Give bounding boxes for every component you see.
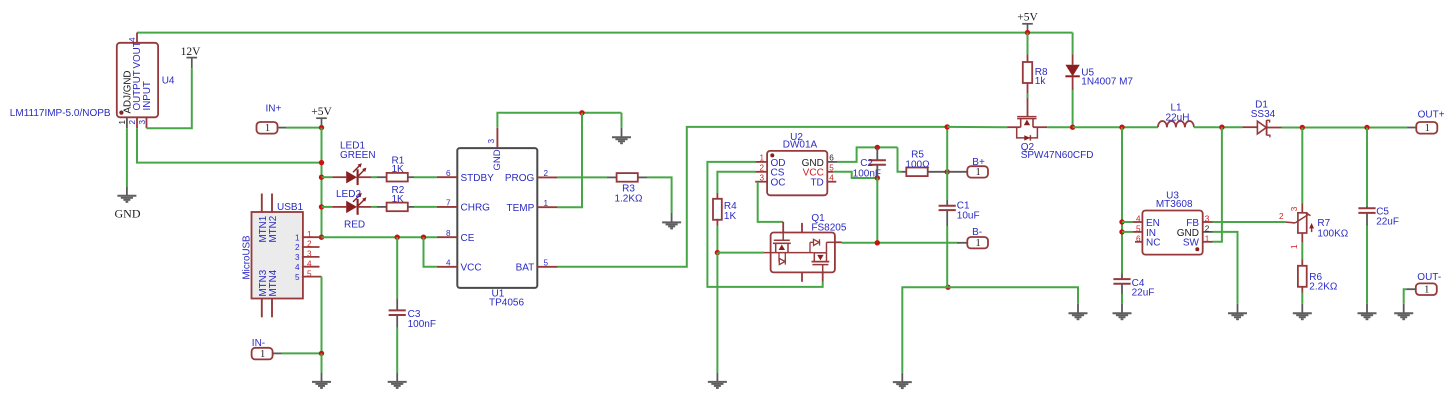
U2 pin 2 stub xyxy=(755,171,767,173)
svg-text:VCC: VCC xyxy=(461,262,482,273)
svg-text:1K: 1K xyxy=(392,164,405,175)
svg-text:B-: B- xyxy=(972,227,982,238)
svg-text:SS34: SS34 xyxy=(1251,109,1276,120)
svg-text:1: 1 xyxy=(265,123,270,134)
svg-text:4: 4 xyxy=(307,259,312,268)
svg-text:NC: NC xyxy=(1146,238,1160,249)
USB1 pin name MTN3 xyxy=(258,269,269,296)
R4 labels xyxy=(724,201,737,222)
svg-text:1: 1 xyxy=(260,349,265,360)
svg-text:1: 1 xyxy=(295,233,300,242)
capacitor C4 xyxy=(1113,279,1130,284)
power 12V post xyxy=(181,46,202,68)
wire rail to R7 xyxy=(1301,128,1303,204)
svg-text:4: 4 xyxy=(128,37,137,42)
U1 pin 7 stub xyxy=(437,206,457,208)
svg-text:TEMP: TEMP xyxy=(507,203,535,214)
ground (R6) xyxy=(1293,313,1312,319)
wire L1 to D1 xyxy=(1194,126,1243,128)
ground (C5) xyxy=(1358,313,1377,319)
svg-text:5: 5 xyxy=(307,269,312,278)
svg-text:3: 3 xyxy=(295,253,300,262)
C5 labels xyxy=(1376,207,1399,228)
U2 pin 5 stub xyxy=(827,171,833,173)
U4 pin 4 VOUT stub xyxy=(136,33,138,43)
U3 pin numbers xyxy=(1136,215,1210,244)
U1 pin 5 stub xyxy=(537,266,557,268)
C1 top stub xyxy=(946,200,948,206)
wire rail to C5 xyxy=(1366,128,1368,206)
svg-text:1: 1 xyxy=(1424,285,1429,296)
wire IN xyxy=(1122,231,1133,233)
svg-text:100KΩ: 100KΩ xyxy=(1317,229,1348,240)
svg-text:3: 3 xyxy=(1205,215,1210,224)
svg-text:B+: B+ xyxy=(972,157,985,168)
ground (IN-) xyxy=(312,382,331,388)
svg-text:U4: U4 xyxy=(162,76,175,87)
wire R7 to R6 xyxy=(1301,243,1303,260)
ground GND (U4) xyxy=(115,196,141,221)
svg-text:1: 1 xyxy=(1290,244,1299,249)
svg-text:22uF: 22uF xyxy=(1376,216,1399,227)
C3 top stub xyxy=(396,298,398,310)
connector B+ xyxy=(967,157,988,178)
USB1 pin name MTN2 xyxy=(268,216,279,243)
node gnd mid junction xyxy=(945,285,950,290)
R8 labels xyxy=(1035,67,1048,87)
U4 value LM1117IMP-5.0/NOPB xyxy=(10,108,111,119)
transistor Q2 xyxy=(1008,98,1048,141)
svg-text:3: 3 xyxy=(138,120,147,125)
OUT- ground stub xyxy=(1403,304,1405,313)
node +5V/U4 output junction xyxy=(319,160,324,165)
USB1 mounting stub MTN4 xyxy=(271,299,273,318)
R2 labels xyxy=(392,185,405,205)
U1 pin names left xyxy=(461,173,495,274)
node R4/Q1 junction xyxy=(715,250,720,255)
USB1 pins 1-5 stubs xyxy=(302,237,322,276)
R6 bottom stub xyxy=(1301,287,1303,293)
svg-text:OC: OC xyxy=(771,178,786,189)
USB1 value MicroUSB xyxy=(242,235,253,280)
led LED1 xyxy=(332,163,371,185)
svg-text:PROG: PROG xyxy=(505,173,535,184)
svg-text:RED: RED xyxy=(344,220,365,231)
R1 labels xyxy=(392,156,405,176)
svg-text:MTN4: MTN4 xyxy=(268,269,279,296)
U2 pin numbers xyxy=(759,154,834,183)
node IN junction xyxy=(1119,229,1124,234)
capacitor C3 xyxy=(389,310,406,315)
resistor R1 xyxy=(387,173,408,182)
R5 left stub xyxy=(902,171,907,173)
U2 pin 3 stub xyxy=(755,181,767,183)
wire D1 to OUT+ xyxy=(1282,127,1407,129)
svg-text:+5V: +5V xyxy=(1017,12,1038,24)
svg-text:MTN2: MTN2 xyxy=(268,216,279,243)
U3 value MT3608 xyxy=(1156,199,1193,210)
resistor R3 xyxy=(617,173,638,182)
svg-text:1: 1 xyxy=(759,154,764,163)
svg-text:4: 4 xyxy=(829,174,834,183)
node C2 top junction xyxy=(875,145,880,150)
node SW junction xyxy=(1219,125,1224,130)
ground (U1 top) xyxy=(612,137,631,143)
svg-text:12V: 12V xyxy=(181,46,202,58)
svg-text:1: 1 xyxy=(118,120,127,125)
wire rail to Q2 xyxy=(947,126,1007,128)
C5 top stub xyxy=(1366,206,1368,209)
svg-text:22uH: 22uH xyxy=(1166,112,1190,123)
R2 left stub xyxy=(377,206,386,208)
wire U3 GND xyxy=(1213,232,1238,304)
U1 pin 1 stub xyxy=(537,206,557,208)
R7 bottom stub xyxy=(1301,233,1303,243)
wire to ground (IN-) xyxy=(321,353,323,372)
capacitor C2 xyxy=(869,160,886,164)
svg-text:STDBY: STDBY xyxy=(461,173,495,184)
U1 pin 4 stub xyxy=(437,266,457,268)
node B+ rail junction xyxy=(945,124,950,129)
C2 labels xyxy=(853,158,881,179)
USB1 pin name MTN1 xyxy=(258,216,269,243)
U3 ground stub xyxy=(1237,304,1239,313)
mid ground stub xyxy=(901,373,903,382)
U1 pin 8 stub xyxy=(437,236,457,238)
wire OD net xyxy=(707,162,822,287)
USB1 pin name MTN4 xyxy=(268,269,279,296)
R6 labels xyxy=(1309,272,1338,293)
svg-text:MT3608: MT3608 xyxy=(1156,199,1193,210)
B- stub xyxy=(957,242,967,244)
C4 top stub xyxy=(1121,274,1123,280)
wire rail to U3/C4 xyxy=(1121,127,1123,273)
svg-text:1: 1 xyxy=(1205,234,1210,243)
wire VCC pin to C2 bottom xyxy=(833,172,877,178)
node C5 junction xyxy=(1364,125,1369,130)
wire OUT- to ground xyxy=(1404,289,1407,304)
svg-text:OUT+: OUT+ xyxy=(1418,109,1445,120)
node R7 junction xyxy=(1300,125,1305,130)
U4 pin number 1 xyxy=(118,120,127,125)
svg-text:3: 3 xyxy=(487,139,496,144)
U3 pin 3 stub xyxy=(1203,221,1213,223)
L1 labels xyxy=(1166,102,1190,123)
svg-text:2.2KΩ: 2.2KΩ xyxy=(1309,282,1338,293)
node EN junction xyxy=(1119,219,1124,224)
svg-text:VOUT: VOUT xyxy=(132,41,143,68)
svg-text:R7: R7 xyxy=(1317,218,1330,229)
R2 right stub xyxy=(408,206,414,208)
C5 bottom stub xyxy=(1366,213,1368,226)
connector IN+ xyxy=(257,104,282,135)
svg-text:10uF: 10uF xyxy=(957,210,980,221)
wire C2top to R5 xyxy=(898,147,902,171)
ground (C3) xyxy=(388,382,407,388)
LED2 anode wire xyxy=(322,206,333,208)
svg-text:2: 2 xyxy=(1205,224,1210,233)
wire +5V vertical xyxy=(321,128,323,238)
svg-text:4: 4 xyxy=(295,263,300,272)
ground (U3) xyxy=(1228,313,1247,319)
R1 right stub xyxy=(408,176,414,178)
wire CS to R4 xyxy=(717,172,755,193)
wire R4 gnd drop xyxy=(716,253,718,373)
wire U5 top drop xyxy=(1072,33,1074,55)
node LED1 junction xyxy=(319,175,324,180)
LED1 labels xyxy=(340,141,376,162)
svg-text:3: 3 xyxy=(307,250,312,259)
wire mid gnd to left ground xyxy=(902,287,948,373)
wire B+ rail drop xyxy=(946,127,948,172)
ic U3 body xyxy=(1142,211,1202,255)
svg-text:8: 8 xyxy=(446,229,451,238)
svg-text:1: 1 xyxy=(544,199,549,208)
node IN+/+5V junction xyxy=(319,125,324,130)
U4 pin number 3 xyxy=(138,120,147,125)
svg-text:100nF: 100nF xyxy=(408,319,436,330)
resistor R4 xyxy=(713,199,722,220)
U3 pin names left xyxy=(1146,218,1160,249)
U5 labels xyxy=(1081,68,1133,88)
R4 bottom stub xyxy=(716,219,718,226)
svg-text:LM1117IMP-5.0/NOPB: LM1117IMP-5.0/NOPB xyxy=(10,108,111,119)
node R5/B+ junction xyxy=(945,169,950,174)
svg-text:GREEN: GREEN xyxy=(340,150,376,161)
svg-text:2: 2 xyxy=(1279,212,1284,221)
U2 value DW01A xyxy=(783,139,818,150)
USB1 refdes xyxy=(277,202,304,213)
USB1 mounting stub MTN1 xyxy=(261,194,263,213)
U3 pin 4 stub xyxy=(1133,221,1143,223)
USB1 pin numbers xyxy=(295,230,312,282)
USB1 mounting stub MTN3 xyxy=(261,299,263,318)
U4 pin name OUTPUT xyxy=(132,70,143,110)
svg-text:IN+: IN+ xyxy=(266,104,282,115)
connector USB1 body xyxy=(252,212,303,299)
U4 pin name ADJ/GND xyxy=(123,70,134,113)
wire mid gnd to right ground xyxy=(948,287,1078,304)
D1 labels xyxy=(1251,100,1276,121)
resistor R8 xyxy=(1023,54,1032,93)
node IN-/USB gnd junction xyxy=(319,351,324,356)
diode U5 xyxy=(1065,54,1079,90)
C5 ground stub xyxy=(1366,304,1368,313)
U3 pin 6 stub xyxy=(1135,241,1142,243)
LED1 anode wire xyxy=(322,176,333,178)
Q1 value FS8205 xyxy=(811,223,846,234)
wire Q1 left pin wire xyxy=(717,252,764,254)
ground (R4/Q1) xyxy=(708,382,727,388)
wire CE net xyxy=(322,236,437,238)
U1 refdes xyxy=(492,289,505,300)
svg-text:SPW47N60CFD: SPW47N60CFD xyxy=(1021,150,1094,161)
node B- junction xyxy=(875,240,880,245)
node LED2 junction xyxy=(319,204,324,209)
node +5V top junction xyxy=(1025,30,1030,35)
resistor R2 xyxy=(387,203,408,212)
wire LED1 to R1 xyxy=(371,176,377,178)
wire GND pin to C2 top xyxy=(837,147,898,162)
svg-text:5: 5 xyxy=(295,273,300,282)
C4 labels xyxy=(1132,278,1155,299)
resistor R5 xyxy=(906,168,927,177)
R5 labels xyxy=(905,150,930,171)
R3 ground stub xyxy=(671,213,673,222)
wire R8 to Q2 gate xyxy=(1027,94,1029,98)
wire C2 bottom to B- net xyxy=(876,178,878,243)
svg-text:TP4056: TP4056 xyxy=(489,297,524,308)
R7 top stub xyxy=(1301,203,1303,213)
USB1 mounting stub MTN2 xyxy=(271,194,273,213)
C2 top stub xyxy=(876,147,878,160)
svg-text:6: 6 xyxy=(829,154,834,163)
node USB pin1 junction xyxy=(319,235,324,240)
wire IN- to junction xyxy=(282,352,322,354)
R6 top stub xyxy=(1301,260,1303,267)
svg-text:1: 1 xyxy=(976,167,981,178)
wire B+ to C1 xyxy=(946,172,948,200)
C2 bottom stub xyxy=(876,165,878,178)
U4 pin name INPUT xyxy=(142,81,153,110)
U1 ground stub xyxy=(621,128,623,137)
svg-text:1K: 1K xyxy=(392,194,405,205)
C3 bottom stub xyxy=(396,315,398,328)
OUT- stub xyxy=(1406,288,1415,290)
wire U4 OUTPUT to +5V net xyxy=(137,128,322,162)
wire R2 to CHRG xyxy=(414,206,437,208)
wire Q1 to B- xyxy=(842,242,958,244)
U3 pin names right xyxy=(1177,218,1200,249)
wire LED2 to R2 xyxy=(371,206,377,208)
capacitor C1 xyxy=(939,206,956,210)
IN- stub xyxy=(273,352,282,354)
wire SW riser xyxy=(1213,127,1222,242)
node U5/rail junction xyxy=(1070,125,1075,130)
ground (R3) xyxy=(662,222,681,228)
svg-text:4: 4 xyxy=(1136,215,1141,224)
wire VCC branch xyxy=(424,237,437,267)
node C3 junction xyxy=(395,235,400,240)
svg-text:2: 2 xyxy=(307,240,312,249)
U1 pin 6 stub xyxy=(437,176,457,178)
U1 value TP4056 xyxy=(489,297,524,308)
U2 refdes xyxy=(790,132,803,143)
wire R4 to Q1 source xyxy=(716,226,718,253)
IN+ stub xyxy=(278,127,287,129)
power +5V symbol (input) xyxy=(311,106,332,127)
U2 pin 1 stub xyxy=(755,161,767,163)
U1 pin numbers xyxy=(446,139,549,268)
svg-text:2: 2 xyxy=(544,169,549,178)
U1 pin name GND xyxy=(492,149,503,170)
svg-text:INPUT: INPUT xyxy=(142,81,153,110)
svg-text:GND: GND xyxy=(115,207,141,221)
U4 pin number 4 xyxy=(128,37,137,42)
svg-text:MTN3: MTN3 xyxy=(258,269,269,296)
resistor R6 xyxy=(1298,266,1307,287)
svg-text:SW: SW xyxy=(1183,238,1200,249)
R7 pin numbers xyxy=(1279,206,1299,249)
wire main rail right xyxy=(1073,126,1158,128)
R4 ground stub xyxy=(716,373,718,382)
U2 pin 4 stub xyxy=(827,181,836,183)
svg-text:DW01A: DW01A xyxy=(783,139,818,150)
connector OUT- xyxy=(1416,272,1441,296)
svg-text:GND: GND xyxy=(492,149,503,170)
wire U5 to rail xyxy=(1072,90,1074,127)
svg-text:2: 2 xyxy=(759,164,764,173)
R1 left stub xyxy=(377,176,386,178)
wire gnd drop (U1) xyxy=(621,113,623,128)
svg-text:FS8205: FS8205 xyxy=(811,223,846,234)
svg-text:MicroUSB: MicroUSB xyxy=(242,235,253,280)
svg-text:+5V: +5V xyxy=(311,106,332,118)
R4 top stub xyxy=(716,193,718,200)
svg-text:3: 3 xyxy=(1290,206,1299,211)
connector IN- xyxy=(252,338,273,360)
svg-text:IN-: IN- xyxy=(252,338,265,349)
U3 pin 1 stub xyxy=(1203,241,1213,243)
R6 ground stub xyxy=(1301,304,1303,313)
wire R8 top xyxy=(1027,33,1029,55)
U4 pin 2 stub xyxy=(136,117,138,128)
wire C4 to ground xyxy=(1121,294,1123,304)
transistor Q1 (dual mosfet) xyxy=(764,222,842,282)
wire Q2 to U5 node xyxy=(1047,126,1072,128)
Q2 refdes xyxy=(1021,142,1035,153)
svg-text:6: 6 xyxy=(1136,234,1141,243)
node VCC branch junction xyxy=(421,235,426,240)
Q2 value SPW47N60CFD xyxy=(1021,150,1094,161)
wire +5V top rail xyxy=(137,32,1073,34)
svg-text:LED2: LED2 xyxy=(336,189,361,200)
svg-text:3: 3 xyxy=(759,174,764,183)
wire U4 ADJ to GND xyxy=(126,128,128,186)
wire IN+ to +5V xyxy=(286,127,322,129)
wire OC to Q1 gate xyxy=(758,182,784,222)
connector OUT+ xyxy=(1416,109,1444,134)
C3 ground stub xyxy=(396,373,398,382)
U3 refdes xyxy=(1166,191,1179,202)
U1 pin names right xyxy=(505,173,535,273)
U1 pin 2 stub xyxy=(537,176,557,178)
U2 pin 6 stub xyxy=(827,161,837,163)
svg-text:CHRG: CHRG xyxy=(461,203,491,214)
C4 ground stub xyxy=(1121,304,1123,313)
regulator U4 body xyxy=(117,43,158,118)
svg-text:OUT-: OUT- xyxy=(1417,272,1441,283)
wire 12V to U4 INPUT xyxy=(147,68,192,128)
R3 left stub xyxy=(607,176,616,178)
wire U1 GND riser xyxy=(497,113,621,128)
svg-text:1: 1 xyxy=(976,238,981,249)
C1 labels xyxy=(957,201,980,222)
U2 pin names left xyxy=(771,158,786,189)
svg-text:1: 1 xyxy=(1425,123,1430,134)
Q1 refdes xyxy=(811,213,825,224)
potentiometer R7 xyxy=(1285,213,1314,233)
B+ stub xyxy=(947,171,967,173)
U4 pin name VOUT xyxy=(132,41,143,68)
power +5V top symbol xyxy=(1017,12,1038,33)
node TEMP/GND junction xyxy=(579,110,584,115)
ground (C4) xyxy=(1113,313,1132,319)
capacitor C5 xyxy=(1358,208,1375,213)
C4 bottom stub xyxy=(1121,284,1123,294)
connector B- xyxy=(967,227,988,249)
wire PROG to R3 xyxy=(558,176,607,178)
